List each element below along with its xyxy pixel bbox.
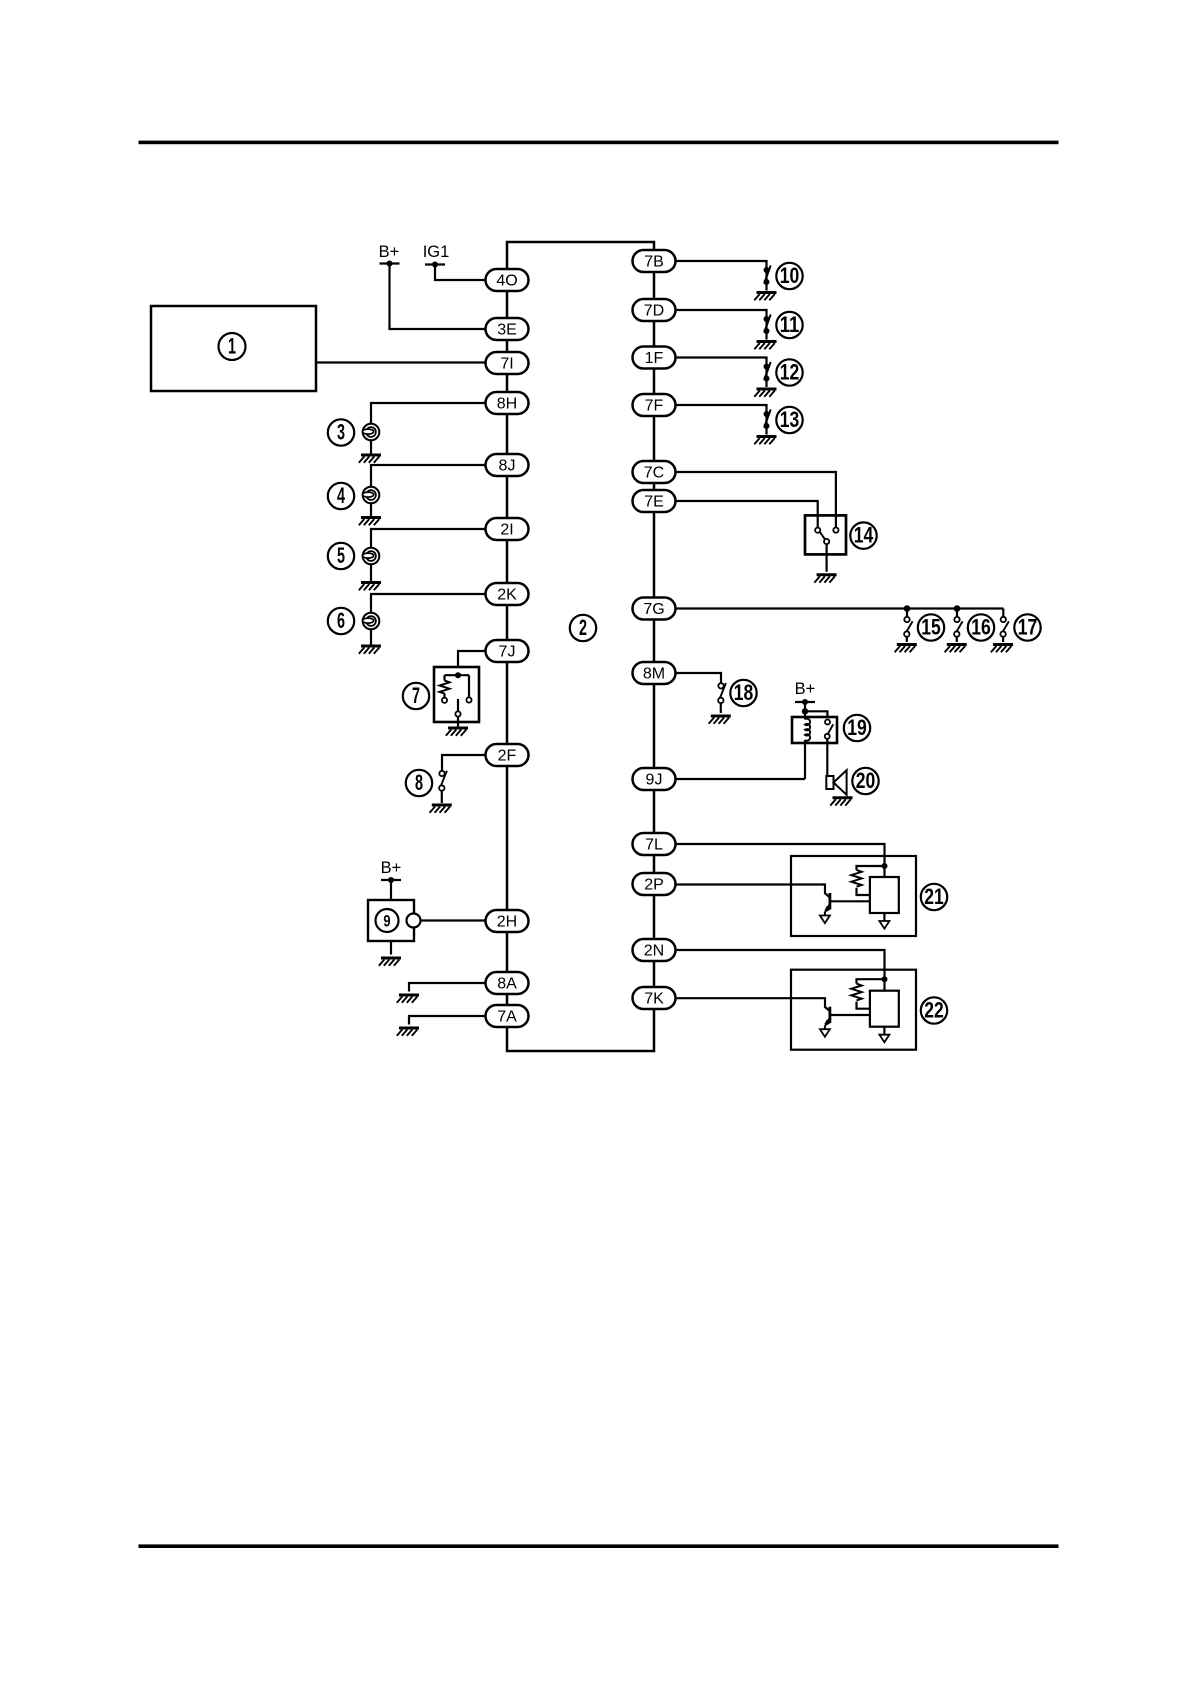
svg-text:7J: 7J [499, 644, 516, 661]
svg-text:7L: 7L [645, 837, 663, 854]
svg-text:19: 19 [847, 715, 867, 740]
svg-text:9J: 9J [646, 772, 663, 789]
svg-text:2N: 2N [644, 943, 664, 960]
svg-text:7I: 7I [500, 356, 513, 373]
svg-text:20: 20 [856, 768, 876, 793]
svg-text:B+: B+ [379, 243, 400, 261]
svg-text:7: 7 [412, 683, 420, 708]
svg-text:4O: 4O [496, 273, 517, 290]
svg-text:6: 6 [337, 608, 345, 633]
svg-text:17: 17 [1018, 615, 1038, 640]
svg-text:10: 10 [780, 263, 800, 288]
svg-text:8: 8 [415, 770, 423, 795]
svg-text:3: 3 [337, 420, 345, 445]
svg-text:22: 22 [924, 998, 944, 1023]
svg-text:7E: 7E [644, 494, 664, 511]
svg-text:B+: B+ [795, 680, 816, 698]
svg-text:12: 12 [780, 360, 800, 385]
svg-text:7D: 7D [644, 303, 664, 320]
svg-text:IG1: IG1 [423, 243, 450, 261]
svg-text:8A: 8A [497, 976, 517, 993]
svg-text:21: 21 [924, 884, 944, 909]
svg-text:11: 11 [780, 312, 800, 337]
svg-text:7K: 7K [644, 991, 664, 1008]
svg-text:7B: 7B [644, 254, 664, 271]
svg-text:14: 14 [854, 523, 874, 548]
svg-text:2: 2 [579, 615, 587, 640]
svg-text:8M: 8M [643, 666, 665, 683]
svg-text:2H: 2H [497, 914, 517, 931]
svg-text:7F: 7F [645, 398, 664, 415]
svg-text:9: 9 [383, 912, 390, 931]
svg-text:3E: 3E [497, 322, 517, 339]
svg-text:1: 1 [228, 334, 236, 359]
svg-text:B+: B+ [381, 859, 402, 877]
svg-text:2F: 2F [498, 748, 517, 765]
svg-text:2I: 2I [500, 522, 513, 539]
svg-text:1F: 1F [645, 350, 664, 367]
svg-text:18: 18 [734, 680, 754, 705]
svg-text:7C: 7C [644, 465, 664, 482]
svg-text:15: 15 [921, 615, 941, 640]
svg-text:5: 5 [337, 543, 345, 568]
svg-text:2P: 2P [644, 877, 664, 894]
svg-text:16: 16 [971, 615, 991, 640]
svg-text:2K: 2K [497, 587, 517, 604]
svg-text:7G: 7G [643, 601, 664, 618]
svg-text:4: 4 [337, 483, 345, 508]
svg-text:13: 13 [780, 407, 800, 432]
svg-text:8H: 8H [497, 396, 517, 413]
svg-text:8J: 8J [499, 458, 516, 475]
svg-text:7A: 7A [497, 1009, 517, 1026]
